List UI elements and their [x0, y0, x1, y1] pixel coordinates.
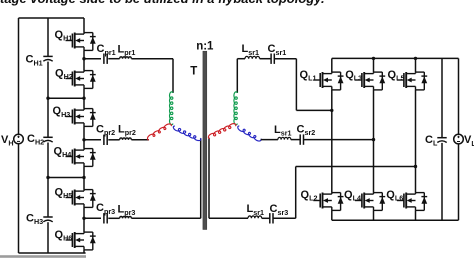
svg-text:QL5: QL5 [388, 69, 405, 83]
svg-text:Lsr1: Lsr1 [247, 203, 265, 217]
svg-text:CH1: CH1 [26, 54, 43, 68]
svg-text:Csr1: Csr1 [268, 43, 287, 57]
svg-text:QH5: QH5 [55, 186, 73, 200]
svg-text:VL: VL [464, 134, 474, 148]
svg-text:QH1: QH1 [55, 29, 73, 43]
svg-text:QH3: QH3 [53, 105, 71, 119]
svg-text:tage voltage side to be utiliz: tage voltage side to be utilized in a fl… [0, 0, 325, 6]
svg-text:QL1: QL1 [300, 69, 317, 83]
svg-text:QH4: QH4 [54, 146, 72, 160]
svg-text:Cpr3: Cpr3 [96, 202, 115, 216]
svg-text:Lpr2: Lpr2 [118, 124, 136, 138]
svg-text:QL3: QL3 [345, 69, 362, 83]
svg-text:QL6: QL6 [386, 189, 403, 203]
svg-text:QL2: QL2 [301, 189, 318, 203]
svg-text:Lsr1: Lsr1 [242, 43, 260, 57]
svg-text:Cpr2: Cpr2 [96, 124, 115, 138]
svg-text:QH2: QH2 [55, 67, 73, 81]
svg-text:Lpr3: Lpr3 [118, 203, 136, 217]
svg-text:CH3: CH3 [26, 213, 43, 227]
svg-text:Lpr1: Lpr1 [118, 44, 136, 58]
svg-text:CL: CL [425, 134, 438, 148]
svg-text:CH2: CH2 [27, 133, 44, 147]
svg-text:Csr3: Csr3 [270, 203, 289, 217]
svg-text:QL4: QL4 [344, 189, 361, 203]
svg-text:QH6: QH6 [55, 229, 73, 243]
svg-text:T: T [190, 66, 197, 78]
svg-text:VH: VH [1, 134, 14, 148]
svg-text:Cpr1: Cpr1 [97, 43, 116, 57]
svg-text:Lsr1: Lsr1 [274, 124, 292, 138]
svg-text:n:1: n:1 [196, 40, 214, 52]
svg-text:Csr2: Csr2 [297, 123, 316, 137]
